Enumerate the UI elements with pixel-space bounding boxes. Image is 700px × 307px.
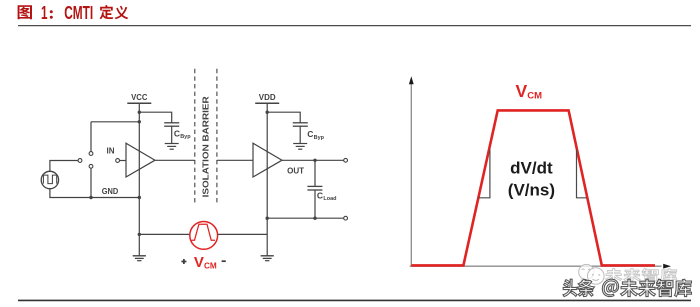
svg-text:IN: IN: [107, 146, 115, 156]
svg-text:1: 1: [41, 2, 48, 23]
svg-text:Byp: Byp: [180, 134, 191, 140]
svg-text:OUT: OUT: [287, 166, 305, 176]
svg-text:VCC: VCC: [131, 92, 147, 102]
svg-text:V: V: [194, 254, 204, 271]
svg-text:(V/ns): (V/ns): [508, 180, 555, 199]
svg-text:Byp: Byp: [314, 135, 325, 141]
svg-text:dV/dt: dV/dt: [510, 159, 553, 178]
svg-text:C: C: [307, 129, 313, 139]
svg-text:VDD: VDD: [259, 92, 276, 102]
svg-text:GND: GND: [102, 186, 119, 196]
svg-text:C: C: [174, 128, 180, 138]
svg-text:Load: Load: [323, 196, 336, 202]
svg-text:CM: CM: [204, 261, 217, 270]
svg-text:C: C: [317, 190, 323, 200]
svg-text:V: V: [516, 81, 528, 101]
svg-text:CMTI: CMTI: [64, 2, 93, 23]
svg-text:ISOLATION BARRIER: ISOLATION BARRIER: [201, 96, 210, 197]
svg-text:CM: CM: [527, 91, 542, 102]
